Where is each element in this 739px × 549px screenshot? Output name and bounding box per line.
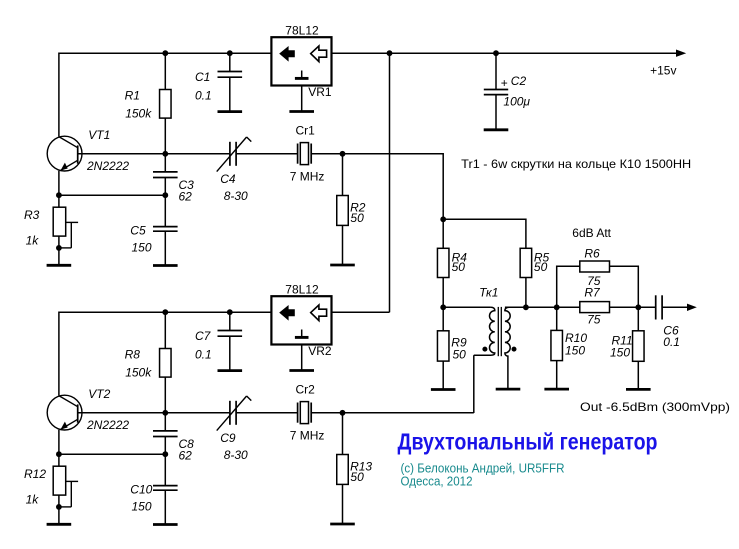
- svg-text:R12: R12: [24, 467, 46, 481]
- wire tap to R2: [342, 154, 344, 196]
- ground under R11: [626, 388, 651, 391]
- svg-text:R6: R6: [584, 247, 600, 261]
- wire C2 to ground: [495, 95, 497, 130]
- trimmer capacitor C9: [217, 396, 252, 462]
- svg-text:R7: R7: [584, 286, 601, 300]
- resistor R1: [125, 89, 171, 121]
- svg-text:2N2222: 2N2222: [86, 418, 129, 432]
- wire base line segment 1 (osc2): [78, 412, 229, 414]
- wire R1 to base line: [164, 118, 166, 154]
- capacitor C7: [195, 329, 242, 362]
- capacitor C2 (electrolytic): [484, 74, 531, 108]
- wire +15v drop to osc2 rail: [389, 53, 391, 312]
- wire osc2 rail right segment: [332, 311, 390, 313]
- svg-text:C2: C2: [511, 74, 527, 88]
- wire R11 to ground: [637, 361, 639, 389]
- svg-text:100μ: 100μ: [503, 95, 530, 109]
- node emitter junction (osc2): [56, 451, 62, 457]
- node E: [523, 304, 529, 310]
- node emitter junction (osc1): [56, 192, 62, 198]
- ground under C1: [218, 110, 243, 113]
- svg-text:0.1: 0.1: [195, 348, 212, 362]
- capacitor C6: [656, 295, 680, 349]
- node rail-C1 junction: [227, 50, 233, 56]
- ground under C2: [484, 128, 509, 131]
- resistor R13: [337, 455, 373, 485]
- svg-text:7 MHz: 7 MHz: [290, 170, 325, 184]
- svg-text:8-30: 8-30: [224, 189, 248, 203]
- svg-text:Cr2: Cr2: [296, 382, 316, 396]
- ground under R2: [330, 264, 355, 267]
- wire base junction to C8: [164, 413, 166, 431]
- wire R4 to node B: [442, 278, 444, 308]
- ground under Tk1 secondary: [496, 388, 521, 391]
- svg-text:Tr1 - 6w скрутки на кольце К10: Tr1 - 6w скрутки на кольце К10 1500НН: [461, 157, 691, 171]
- resistor R12 (trimmer): [24, 466, 78, 507]
- wire C10 to ground: [164, 490, 166, 524]
- capacitor C1: [195, 70, 242, 103]
- wire osc2 output line: [343, 412, 474, 414]
- wire C1 to ground: [229, 77, 231, 111]
- svg-text:C9: C9: [220, 431, 236, 445]
- ground under R9: [431, 388, 456, 391]
- node rail-R8 junction: [162, 309, 168, 315]
- ground under C7: [218, 369, 243, 372]
- svg-text:78L12: 78L12: [285, 24, 319, 38]
- ground under C10: [153, 523, 178, 526]
- wire rail to R1: [164, 53, 166, 89]
- wire +12V rail left segment (osc2): [59, 311, 272, 313]
- svg-text:C5: C5: [130, 224, 146, 238]
- wire node C up to R6: [557, 266, 580, 307]
- svg-text:50: 50: [350, 470, 364, 484]
- svg-text:Out -6.5dBm (300mVpp): Out -6.5dBm (300mVpp): [580, 400, 730, 414]
- svg-text:0.1: 0.1: [663, 335, 680, 349]
- svg-text:75: 75: [587, 313, 601, 327]
- wire R13 to ground: [342, 484, 344, 524]
- wire R9 to ground: [442, 361, 444, 389]
- crystal Cr1: [290, 123, 325, 183]
- svg-text:6dB Att: 6dB Att: [572, 226, 611, 240]
- resistor R7: [580, 286, 610, 327]
- wire R12 bottom to ground: [58, 495, 60, 523]
- wire node D down to R11: [637, 307, 639, 331]
- svg-text:Одесса, 2012: Одесса, 2012: [401, 474, 473, 489]
- wire node A to R5 top: [443, 219, 526, 248]
- svg-text:VT2: VT2: [88, 387, 110, 401]
- svg-text:VR2: VR2: [308, 344, 332, 358]
- node R2 tap junction: [340, 151, 346, 157]
- node rail C2 junction: [493, 50, 499, 56]
- node B: [440, 304, 446, 310]
- ground under R12: [47, 523, 72, 526]
- node Tk1 primary phase dot: [482, 347, 487, 352]
- svg-text:+15v: +15v: [650, 63, 676, 77]
- svg-text:150: 150: [132, 241, 152, 255]
- svg-text:50: 50: [534, 260, 548, 274]
- voltage regulator VR1 78L12: [271, 24, 331, 100]
- ground under R13: [330, 523, 355, 526]
- wire rail to C7: [229, 312, 231, 330]
- wire base line segment 1 (osc1): [78, 153, 229, 155]
- node +15v drop junction: [387, 50, 393, 56]
- svg-text:50: 50: [453, 347, 467, 361]
- wire node A to R4: [442, 219, 444, 248]
- resistor R4: [437, 248, 467, 277]
- svg-text:0.1: 0.1: [195, 89, 212, 103]
- wire node B to Tk1 primary top: [443, 306, 490, 308]
- wire rail to R8: [164, 312, 166, 348]
- wire +12V rail left segment (osc1): [59, 52, 272, 54]
- wire node B to R9: [442, 307, 444, 331]
- capacitor C8: [153, 431, 194, 463]
- resistor R11: [610, 331, 644, 362]
- ground under VR1: [289, 110, 314, 113]
- node C3-C5 junction: [162, 192, 168, 198]
- svg-text:8-30: 8-30: [224, 448, 248, 462]
- ground under R3: [47, 264, 72, 267]
- resistor R6: [580, 247, 610, 288]
- wire base line segment 3 (osc1): [312, 153, 343, 155]
- ground under VR2: [289, 369, 314, 372]
- svg-text:R1: R1: [125, 89, 140, 103]
- transistor VT1: [47, 128, 129, 173]
- transistor VT2: [47, 387, 129, 432]
- wire osc1 output to combiner: [343, 154, 444, 220]
- svg-text:62: 62: [179, 449, 193, 463]
- wire collector drop (osc1): [58, 53, 60, 137]
- node R13 tap junction: [340, 410, 346, 416]
- node Tk1 secondary phase dot: [512, 347, 517, 352]
- svg-text:VT1: VT1: [88, 128, 110, 142]
- svg-text:150: 150: [132, 500, 152, 514]
- transformer Tk1 primary winding: [474, 307, 495, 355]
- svg-text:Cr1: Cr1: [296, 123, 316, 137]
- node C: [554, 304, 560, 310]
- resistor R3 (trimmer): [24, 207, 78, 248]
- node D: [635, 304, 641, 310]
- arrow +15v: [676, 50, 686, 57]
- wire rail to C2: [495, 53, 497, 89]
- crystal Cr2: [290, 382, 325, 442]
- svg-text:2N2222: 2N2222: [86, 159, 129, 173]
- wire base line segment 2 (osc2): [237, 412, 297, 414]
- svg-text:Двухтональный генератор: Двухтональный генератор: [398, 429, 658, 455]
- svg-text:+: +: [501, 76, 508, 90]
- svg-text:62: 62: [179, 190, 193, 204]
- wire node C down to R10: [556, 307, 558, 330]
- transformer Tk1 secondary winding: [505, 307, 510, 388]
- voltage regulator VR2 78L12: [271, 283, 331, 359]
- svg-text:150k: 150k: [125, 106, 152, 120]
- wire rail to C1: [229, 53, 231, 71]
- resistor R9: [437, 331, 467, 362]
- node A combiner top left: [440, 216, 446, 222]
- wire emitter drop (osc1): [58, 171, 60, 208]
- wire R5 to node E: [525, 278, 527, 308]
- wire C5 to ground: [164, 231, 166, 265]
- wire emitter to cap junction (osc2): [59, 453, 165, 455]
- wire R8 to base line: [164, 377, 166, 413]
- trimmer capacitor C4: [217, 137, 252, 203]
- ground under C5: [153, 264, 178, 267]
- resistor R2: [337, 196, 366, 226]
- wire C8 to junction: [164, 437, 166, 486]
- wire R10 to ground: [556, 361, 558, 390]
- wire C6 to output arrow: [662, 306, 688, 308]
- node trimmer wiper junction (osc1): [56, 245, 62, 251]
- svg-text:1k: 1k: [26, 493, 40, 507]
- svg-text:150k: 150k: [125, 365, 152, 379]
- capacitor C5: [130, 224, 177, 255]
- resistor R10: [551, 330, 587, 360]
- wire base line segment 3 (osc2): [312, 412, 343, 414]
- wire emitter to cap junction (osc1): [59, 194, 165, 196]
- svg-text:C4: C4: [220, 172, 236, 186]
- capacitor C3: [153, 172, 194, 204]
- svg-text:C1: C1: [195, 70, 210, 84]
- node rail-R1 junction: [162, 50, 168, 56]
- node trimmer wiper junction (osc2): [56, 504, 62, 510]
- svg-text:C10: C10: [130, 483, 152, 497]
- node C8-C10 junction: [162, 451, 168, 457]
- wire VR1 ground pin: [301, 86, 303, 112]
- wire Tk1 primary bottom to osc2 output: [473, 355, 475, 413]
- wire node C to R7: [557, 306, 580, 308]
- wire C7 to ground: [229, 336, 231, 370]
- svg-text:R8: R8: [125, 348, 141, 362]
- arrow output: [687, 304, 697, 311]
- resistor R5: [520, 248, 549, 277]
- wire +15v rail right segment: [332, 52, 678, 54]
- svg-text:50: 50: [452, 260, 466, 274]
- svg-text:Тк1: Тк1: [479, 286, 498, 300]
- wire C3 to junction: [164, 178, 166, 227]
- wire VR2 ground pin: [301, 345, 303, 371]
- wire collector drop (osc2): [58, 312, 60, 396]
- node base junction (osc1): [162, 151, 168, 157]
- wire node D to C6: [638, 306, 655, 308]
- svg-text:VR1: VR1: [308, 85, 332, 99]
- ground under R10: [544, 388, 569, 391]
- wire R3 bottom to ground: [58, 236, 60, 264]
- wire tap to R13: [342, 413, 344, 455]
- svg-text:150: 150: [610, 346, 630, 360]
- svg-text:C7: C7: [195, 329, 212, 343]
- svg-text:78L12: 78L12: [285, 283, 319, 297]
- svg-text:1k: 1k: [26, 234, 40, 248]
- resistor R8: [125, 348, 171, 380]
- node rail-C7 junction: [227, 309, 233, 315]
- wire node E to node C: [505, 306, 557, 308]
- capacitor C10: [130, 483, 177, 514]
- wire R2 to ground: [342, 225, 344, 265]
- wire emitter drop (osc2): [58, 430, 60, 467]
- svg-text:7 MHz: 7 MHz: [290, 429, 325, 443]
- svg-text:50: 50: [350, 211, 364, 225]
- svg-text:150: 150: [565, 344, 585, 358]
- wire base line segment 2 (osc1): [237, 153, 297, 155]
- node base junction (osc2): [162, 410, 168, 416]
- wire base junction to C3: [164, 154, 166, 172]
- transformer Tk1 core: [498, 307, 501, 356]
- svg-text:R3: R3: [24, 208, 40, 222]
- wire R6 to node D drop: [610, 266, 639, 307]
- wire R7 to node D: [610, 306, 639, 308]
